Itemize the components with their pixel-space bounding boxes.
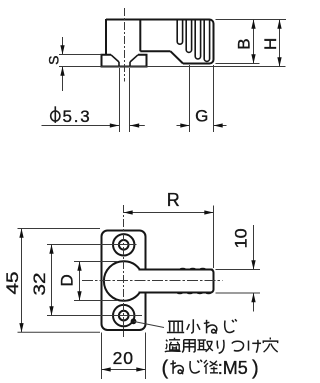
countersink right diagonal: [130, 55, 138, 62]
body top edge: [106, 20, 214, 24]
slot 4: [204, 20, 209, 62]
stem serrations top: [180, 268, 213, 269]
dimension phi5.3 leader: [42, 125, 120, 127]
phi5.3 arrow left: [130, 123, 139, 127]
B arrow up: [251, 20, 255, 29]
svg-text:45: 45: [3, 272, 22, 295]
body left edge: [105, 19, 107, 55]
20 right extension: [145, 333, 147, 380]
svg-text:B: B: [235, 38, 254, 49]
B bottom extension line: [216, 63, 260, 65]
hole right edge: [129, 62, 131, 67]
note text line1: sara ko-neji: [167, 319, 237, 334]
label phi5.3: [51, 106, 60, 123]
dimension 10 bottom tail: [253, 293, 255, 312]
slot 1: [177, 20, 182, 45]
32 arrow down: [49, 306, 53, 315]
D bottom extension: [74, 300, 118, 302]
svg-text:): ): [252, 357, 259, 379]
32 arrow up: [49, 245, 53, 254]
slot 3: [195, 20, 200, 60]
svg-text:(: (: [162, 357, 169, 379]
boss circle: [104, 261, 144, 301]
hole left edge: [118, 62, 120, 67]
body underside line: [140, 50, 170, 52]
S arrow up: [60, 67, 64, 76]
G left extension line: [189, 65, 191, 132]
10 bottom extension: [216, 292, 261, 294]
note text line3: (neji dia:M5): [162, 357, 259, 379]
dimension 32 line: [51, 245, 53, 316]
dimension 45 line: [21, 229, 23, 333]
horizontal centerline bottom view: [82, 280, 223, 282]
D arrow up: [77, 262, 81, 271]
flange outline: [102, 55, 147, 67]
svg-text:R: R: [167, 190, 180, 210]
H arrow up: [277, 20, 281, 29]
dimension 10 top tail: [253, 225, 255, 270]
phi5.3 right tail: [130, 125, 145, 127]
top hole inner: [119, 240, 129, 250]
plate outline: [102, 231, 146, 331]
svg-text:H: H: [261, 38, 280, 50]
dimension 20 line: [102, 369, 146, 371]
10 arrow down: [251, 260, 255, 269]
10 top extension: [216, 269, 261, 271]
dimension S line top tail: [62, 37, 64, 55]
S top extension line: [59, 54, 102, 56]
bottom hole outer: [113, 305, 134, 326]
flange bottom long extension line: [59, 66, 286, 68]
countersink left diagonal: [111, 55, 119, 62]
svg-text:G: G: [195, 107, 208, 126]
dimension R line: [124, 212, 214, 214]
phi5.3 arrow right: [110, 123, 119, 127]
G right extension line: [213, 65, 215, 132]
svg-text:32: 32: [30, 273, 49, 296]
B arrow down: [251, 54, 255, 63]
leader line: [134, 322, 164, 328]
top hole center mark: [47, 244, 137, 246]
body right edge: [213, 24, 215, 60]
leader dot: [131, 318, 137, 324]
R arrow left: [124, 210, 133, 214]
svg-text:10: 10: [232, 228, 251, 248]
svg-text:20: 20: [113, 348, 134, 368]
G left tail: [177, 125, 190, 127]
stem: [139, 270, 214, 293]
body bottom edge: [183, 60, 214, 64]
slot 2: [186, 20, 191, 53]
20 arrow right: [136, 367, 145, 371]
D arrow down: [77, 291, 81, 300]
svg-text:5.3: 5.3: [63, 107, 92, 126]
svg-text:S: S: [45, 56, 61, 65]
45 arrow down: [19, 323, 23, 332]
10 arrow up: [251, 293, 255, 302]
svg-text::M5: :M5: [218, 358, 248, 378]
stem serrations bottom: [177, 292, 211, 293]
body underside diagonal: [171, 51, 184, 63]
note text line2: tekiyou toritsuke ana: [165, 337, 278, 353]
D top extension: [74, 261, 118, 263]
svg-text:D: D: [57, 274, 76, 286]
45 arrow up: [19, 229, 23, 238]
G arrow right: [180, 123, 189, 127]
G right tail: [214, 125, 227, 127]
R arrow right: [204, 210, 213, 214]
top hole outer: [113, 234, 134, 255]
vertical centerline bottom view: [123, 205, 125, 337]
dimension D line: [79, 262, 81, 301]
bottom hole inner: [119, 311, 129, 321]
dimension S line bottom tail: [62, 67, 64, 92]
body step edge: [139, 20, 141, 52]
45 bottom extension: [18, 331, 101, 333]
dimension B line: [253, 20, 255, 64]
20 left extension: [101, 333, 103, 380]
45 top extension: [18, 228, 101, 230]
vertical centerline top view: [124, 8, 126, 82]
R right extension line: [213, 206, 215, 269]
hole left extension line: [119, 68, 121, 132]
G arrow left: [214, 123, 223, 127]
top right extension line: [216, 19, 287, 21]
S arrow down: [60, 45, 64, 54]
bottom hole center mark: [47, 315, 142, 317]
dimension H line: [279, 20, 281, 67]
20 arrow left: [102, 367, 111, 371]
hole right extension line: [129, 68, 131, 132]
H arrow down: [277, 57, 281, 66]
